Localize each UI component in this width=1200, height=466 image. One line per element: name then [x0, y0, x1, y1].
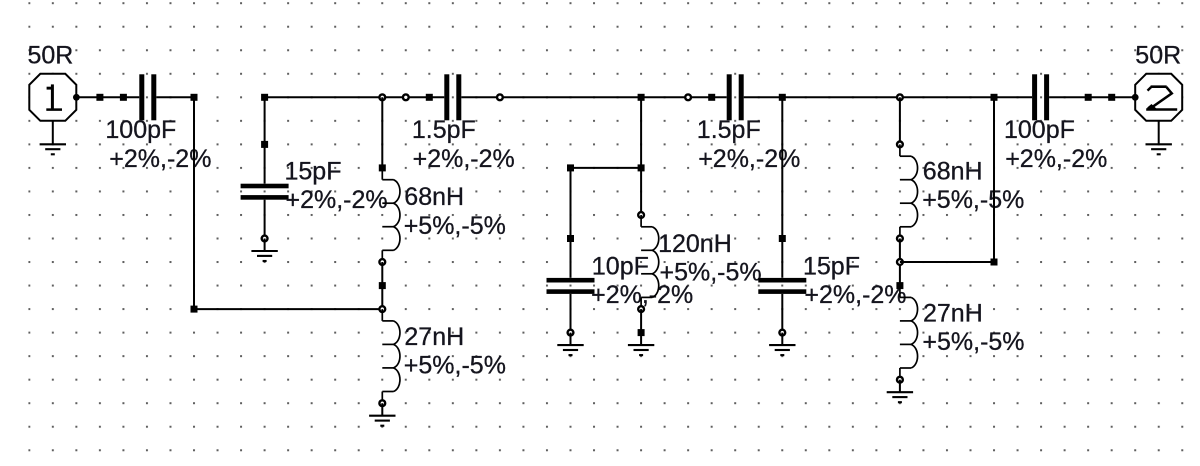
node E junction: [991, 94, 998, 101]
tap node donut: [897, 259, 903, 265]
junction at row 167: [638, 164, 645, 171]
capacitor C4 10pF shunt: [547, 168, 595, 345]
wire-end marker: [1108, 94, 1115, 101]
svg-text:+2%,-2%: +2%,-2%: [413, 145, 515, 173]
capacitor C2 ground: [251, 251, 277, 261]
inductor L1 68nH: [379, 164, 400, 265]
inductor L2 ground: [369, 416, 395, 426]
capacitor C5 label: [697, 116, 801, 173]
svg-text:10pF: 10pF: [592, 253, 649, 281]
wire bus node B to C3: [265, 96, 445, 98]
wire L4 to L5: [899, 239, 901, 286]
port P1 ground: [40, 121, 66, 155]
inductor L4 label: [922, 158, 1024, 215]
capacitor C6 15pF shunt: [758, 97, 806, 345]
inductor L3 ground: [628, 345, 654, 355]
svg-text:+5%,-5%: +5%,-5%: [404, 352, 506, 380]
inductor L2 27nH: [379, 309, 400, 416]
svg-text:+2%,-2%: +2%,-2%: [698, 145, 800, 173]
capacitor C5 1.5pF: [727, 74, 744, 120]
svg-text:50R: 50R: [1135, 42, 1181, 70]
svg-text:100pF: 100pF: [105, 116, 176, 144]
capacitor C7 label: [1004, 116, 1107, 173]
corner marker: [567, 164, 574, 171]
svg-text:50R: 50R: [28, 42, 74, 70]
capacitor C2 label: [285, 157, 388, 214]
capacitor C1 100pF: [139, 74, 156, 120]
svg-text:+2%,-2%: +2%,-2%: [286, 186, 388, 214]
inductor L1 label: [404, 183, 506, 240]
port P2 50R: [1132, 74, 1182, 121]
capacitor C7 100pF: [1032, 74, 1049, 120]
wire down to L1: [381, 97, 383, 168]
wire-end marker: [426, 94, 433, 101]
wire-end marker: [1085, 94, 1092, 101]
capacitor C2 15pF shunt: [241, 97, 289, 251]
inductor L2 label: [404, 323, 506, 380]
wire-end marker: [120, 94, 127, 101]
wire tap horizontal: [194, 308, 382, 310]
svg-text:+5%,-5%: +5%,-5%: [660, 259, 762, 287]
port P1 50R: [29, 74, 80, 121]
svg-text:100pF: 100pF: [1004, 116, 1075, 144]
wire node A down: [193, 97, 195, 309]
capacitor C1 label: [105, 116, 211, 173]
capacitor C4 ground: [557, 345, 583, 355]
inductor L5 label: [922, 299, 1024, 356]
svg-text:+5%,-5%: +5%,-5%: [922, 186, 1024, 214]
node B junction: [261, 94, 268, 101]
wire 10pF horizontal: [571, 167, 642, 169]
wire-end marker: [96, 94, 103, 101]
inductor L3 120nH: [638, 212, 659, 345]
port P2 ground: [1146, 121, 1172, 155]
node at top of L1: [379, 94, 385, 100]
svg-text:+2%,-2%: +2%,-2%: [1005, 145, 1107, 173]
wire right branch vertical: [993, 97, 995, 262]
capacitor C6 label: [803, 253, 907, 310]
svg-text:15pF: 15pF: [285, 157, 342, 185]
svg-text:68nH: 68nH: [923, 158, 983, 186]
node A junction: [191, 94, 198, 101]
wire-end donut: [497, 94, 503, 100]
svg-text:27nH: 27nH: [404, 323, 464, 351]
node A corner: [191, 306, 198, 313]
node D junction: [779, 94, 786, 101]
capacitor C3 1.5pF: [444, 74, 461, 120]
inductor L5 27nH: [897, 286, 918, 393]
wire-end marker: [379, 282, 386, 289]
svg-text:15pF: 15pF: [803, 253, 860, 281]
wire-end donut: [403, 94, 409, 100]
wire node C down to L3: [640, 97, 642, 215]
inductor L5 ground: [887, 392, 913, 402]
svg-text:+5%,-5%: +5%,-5%: [922, 328, 1024, 356]
inductor L3 label: [658, 230, 762, 287]
svg-text:120nH: 120nH: [658, 230, 732, 258]
svg-text:1.5pF: 1.5pF: [697, 116, 761, 144]
wire-end donut: [685, 94, 691, 100]
svg-text:+5%,-5%: +5%,-5%: [404, 212, 506, 240]
wire C1 to node A: [156, 96, 194, 98]
capacitor C3 label: [412, 116, 515, 173]
wire C3 to node C: [461, 96, 726, 98]
capacitor C6 ground: [769, 345, 795, 355]
wire-end marker: [896, 282, 903, 289]
node C junction: [638, 94, 645, 101]
svg-text:1.5pF: 1.5pF: [412, 116, 476, 144]
wire C7 to port2: [1049, 96, 1135, 98]
svg-text:68nH: 68nH: [404, 183, 464, 211]
tap node donut: [379, 306, 385, 312]
svg-text:+2%,-2%: +2%,-2%: [109, 145, 211, 173]
wire L1 to L2: [381, 262, 383, 309]
svg-text:+2%,-2%: +2%,-2%: [804, 281, 906, 309]
node at top of L4: [897, 94, 903, 100]
inductor L4 68nH: [897, 142, 918, 242]
wire-end marker: [708, 94, 715, 101]
wire port1 to C1: [76, 96, 139, 98]
wire tap right horizontal: [900, 261, 994, 263]
wire down to L4: [899, 97, 901, 144]
wire C5 to C7: [744, 96, 1032, 98]
capacitor C4 label: [591, 253, 693, 310]
svg-text:27nH: 27nH: [923, 299, 983, 327]
corner marker: [991, 259, 998, 266]
